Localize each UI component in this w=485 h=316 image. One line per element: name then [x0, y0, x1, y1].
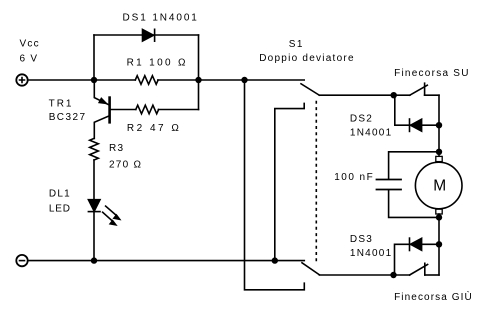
- switch S1 pole A common lever: [301, 84, 319, 95]
- svg-text:DS2: DS2: [350, 114, 373, 125]
- diode DS2: [395, 95, 439, 125]
- node bottom rail S1: [272, 257, 278, 263]
- svg-text:100 nF: 100 nF: [334, 172, 374, 183]
- motor M1: [415, 162, 462, 209]
- node R1 right: [195, 77, 201, 83]
- node finecorsa SU left: [391, 92, 397, 98]
- LED arrow 2: [103, 212, 113, 221]
- wire DS1 branch left vertical: [93, 35, 95, 80]
- resistor R2: [136, 105, 159, 114]
- svg-text:6 V: 6 V: [20, 54, 39, 65]
- wire top rail right: [158, 79, 304, 81]
- node motor top: [436, 149, 442, 155]
- wire DS1 branch right vertical: [198, 35, 200, 110]
- motor M1 terminal bottom: [436, 209, 442, 214]
- S1 contact upper L: [275, 103, 304, 260]
- switch Finecorsa GIU: [410, 265, 428, 276]
- svg-text:TR1: TR1: [49, 99, 74, 110]
- svg-text:1N4001: 1N4001: [350, 248, 393, 259]
- wire bottom rail: [28, 260, 304, 262]
- svg-text:R2 47 Ω: R2 47 Ω: [127, 123, 181, 134]
- svg-text:Finecorsa SU: Finecorsa SU: [394, 68, 470, 79]
- motor M1 terminal top: [436, 156, 442, 161]
- wire DS1 branch top: [94, 34, 199, 36]
- wire base to right vertical: [158, 109, 198, 111]
- resistor R1: [135, 76, 158, 85]
- wire collector to LED: [93, 160, 95, 200]
- svg-text:S1: S1: [289, 39, 304, 50]
- wire S1 B to finecorsa GIU: [319, 274, 409, 276]
- svg-text:Doppio deviatore: Doppio deviatore: [259, 53, 355, 64]
- wire base: [111, 109, 136, 111]
- switch S1 pole B lever: [302, 263, 319, 275]
- svg-text:1N4001: 1N4001: [350, 128, 393, 139]
- S1 cross wire from top rail: [245, 80, 305, 290]
- svg-text:Finecorsa GIÙ: Finecorsa GIÙ: [394, 290, 473, 303]
- node DS2 right: [436, 122, 442, 128]
- diode DS3: [395, 244, 440, 275]
- minus terminal: [16, 255, 27, 266]
- node motor bottom: [436, 214, 442, 220]
- node bottom rail LED: [91, 257, 97, 263]
- svg-text:BC327: BC327: [49, 112, 87, 123]
- node DS3 left: [390, 272, 396, 278]
- diode DS1: [143, 30, 154, 42]
- svg-text:R1 100 Ω: R1 100 Ω: [127, 57, 188, 68]
- S1 mechanical link dashed: [315, 101, 317, 263]
- transistor Q1 TR1: [108, 98, 111, 123]
- capacitor C1 plates: [377, 179, 402, 181]
- svg-text:270 Ω: 270 Ω: [109, 160, 142, 171]
- wire LED to bottom rail: [93, 212, 95, 261]
- svg-text:DS1 1N4001: DS1 1N4001: [123, 13, 199, 24]
- node DS3 right: [436, 241, 442, 247]
- switch Finecorsa SU: [410, 85, 428, 95]
- LED arrow 1: [106, 206, 117, 216]
- resistor R3: [90, 138, 99, 160]
- LED DL1: [88, 200, 100, 212]
- Vcc + terminal: [16, 74, 27, 85]
- svg-text:LED: LED: [49, 204, 71, 215]
- svg-text:DS3: DS3: [350, 234, 373, 245]
- wire top rail left: [28, 79, 135, 81]
- capacitor C1 wires: [389, 152, 439, 179]
- node rail S1 cross: [241, 77, 247, 83]
- svg-text:DL1: DL1: [49, 188, 71, 199]
- svg-text:Vcc: Vcc: [20, 39, 40, 50]
- node emitter/rail: [91, 77, 97, 83]
- wire S1 A to finecorsa SU: [319, 94, 410, 96]
- svg-text:M: M: [433, 177, 446, 194]
- svg-text:R3: R3: [109, 143, 124, 154]
- wire right vertical top: [438, 95, 440, 156]
- wire right vertical bottom: [438, 214, 440, 275]
